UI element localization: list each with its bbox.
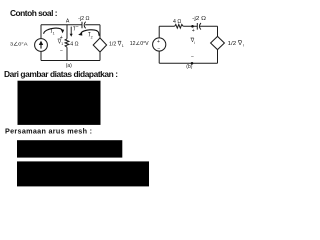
svg-text:4 Ω: 4 Ω: [173, 19, 181, 25]
svg-text:12∠0°V: 12∠0°V: [130, 41, 149, 47]
svg-text:-j2 Ω: -j2 Ω: [78, 16, 89, 22]
svg-text:Contoh soal :: Contoh soal :: [10, 8, 58, 18]
svg-text:Persamaan arus mesh :: Persamaan arus mesh :: [5, 127, 92, 136]
svg-text:1: 1: [61, 42, 63, 46]
svg-text:−: −: [60, 49, 63, 55]
svg-text:-j2 Ω: -j2 Ω: [192, 16, 206, 22]
svg-text:+: +: [192, 28, 195, 34]
svg-text:1/2 V: 1/2 V: [109, 42, 122, 48]
svg-text:(b): (b): [186, 64, 192, 70]
svg-text:A: A: [66, 18, 70, 24]
svg-text:1: 1: [122, 44, 124, 48]
svg-text:+: +: [157, 39, 160, 45]
svg-text:2: 2: [91, 35, 93, 39]
svg-text:1: 1: [53, 32, 55, 36]
svg-text:−: −: [157, 47, 160, 53]
svg-text:4 Ω: 4 Ω: [70, 42, 78, 48]
svg-text:3∠0°A: 3∠0°A: [10, 42, 28, 48]
svg-text:i: i: [243, 43, 244, 48]
svg-text:Dari gambar diatas didapatkan: Dari gambar diatas didapatkan :: [4, 69, 118, 79]
svg-text:(a): (a): [66, 63, 72, 69]
svg-text:1/2 V: 1/2 V: [228, 41, 243, 47]
svg-text:−: −: [191, 55, 194, 61]
svg-text:−: −: [76, 25, 79, 31]
svg-text:i: i: [194, 41, 195, 45]
